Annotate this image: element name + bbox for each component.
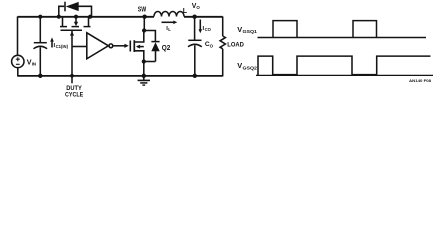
svg-text:O: O <box>210 43 214 48</box>
svg-text:LOAD: LOAD <box>227 41 244 48</box>
svg-text:L: L <box>183 8 188 15</box>
svg-text:CYCLE: CYCLE <box>65 91 84 98</box>
svg-text:CO: CO <box>205 27 212 32</box>
svg-text:O: O <box>196 5 200 10</box>
svg-text:L: L <box>168 27 171 32</box>
svg-text:GSQ1: GSQ1 <box>243 29 258 34</box>
svg-text:Q2: Q2 <box>162 45 171 52</box>
svg-text:AN140 F08: AN140 F08 <box>409 79 431 83</box>
svg-text:C1(IN): C1(IN) <box>56 44 69 49</box>
svg-text:IN: IN <box>32 62 36 67</box>
svg-text:GSQ2: GSQ2 <box>243 65 258 70</box>
svg-text:SW: SW <box>138 7 147 14</box>
